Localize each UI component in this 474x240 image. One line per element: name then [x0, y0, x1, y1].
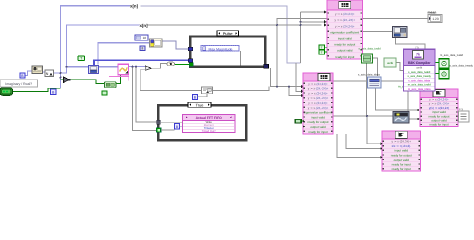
svg-text:eigenvalue coefficient: eigenvalue coefficient [304, 111, 333, 115]
svg-text:output valid: output valid [310, 125, 326, 129]
svg-text:x[n]: x[n] [140, 23, 149, 28]
svg-text:8: 8 [142, 47, 144, 51]
svg-text:s_axis_data_tvalid: s_axis_data_tvalid [359, 47, 382, 50]
svg-text:True: True [196, 102, 204, 107]
svg-text:ready for input: ready for input [392, 167, 411, 171]
svg-text:s_axis_data_tvalid: s_axis_data_tvalid [408, 71, 431, 74]
svg-text:y := x·(24,24)+: y := x·(24,24)+ [335, 24, 355, 28]
svg-text:T: T [80, 57, 82, 61]
svg-text:ready for output: ready for output [307, 120, 328, 124]
svg-text:output valid: output valid [394, 158, 410, 162]
svg-text:N: N [46, 72, 49, 76]
svg-text:y := x·(24,-24)+: y := x·(24,-24)+ [308, 87, 329, 91]
svg-text:R2K Compiler: R2K Compiler [408, 61, 431, 65]
svg-text:s_axis_data_tdata: s_axis_data_tdata [358, 74, 380, 77]
svg-text:ax4k: ax4k [416, 66, 423, 70]
svg-text:input valid: input valid [394, 149, 408, 153]
svg-text:1.23: 1.23 [432, 17, 438, 21]
svg-text:Max Magnitude: Max Magnitude [209, 47, 233, 51]
svg-text:1/x := +(-24,2)·: 1/x := +(-24,2)· [391, 144, 411, 148]
svg-text:y := x·(24,34)+: y := x·(24,34)+ [391, 140, 411, 144]
svg-text:output valid: output valid [337, 49, 353, 53]
svg-text:Imaginary / Real?: Imaginary / Real? [5, 82, 32, 86]
svg-text:s_axis_data_tready: s_axis_data_tready [408, 75, 432, 78]
svg-text:Actual FFT FIFO: Actual FFT FIFO [196, 116, 223, 120]
svg-text:7k: 7k [416, 52, 420, 56]
svg-text:m_axis_data_tdata: m_axis_data_tdata [408, 88, 431, 91]
svg-text:y := x·(24,24)+: y := x·(24,24)+ [308, 91, 328, 95]
svg-text:y := x·(24,-24)+: y := x·(24,-24)+ [308, 96, 329, 100]
svg-text:input valid: input valid [338, 37, 352, 41]
svg-text:x[n]: x[n] [130, 4, 139, 9]
svg-text:eigenvalue coefficient: eigenvalue coefficient [330, 30, 359, 34]
svg-text:ax4k: ax4k [387, 61, 394, 65]
svg-text:s_axis_data_tdata: s_axis_data_tdata [408, 79, 430, 82]
svg-text:y := x·(24,-24)+: y := x·(24,-24)+ [334, 18, 355, 22]
svg-text:ready for input: ready for input [335, 55, 354, 59]
svg-text:s_axis_data_tready: s_axis_data_tready [450, 64, 474, 67]
svg-text:T: T [321, 50, 323, 54]
svg-text:ready for input: ready for input [392, 162, 411, 166]
svg-text:ready for output: ready for output [391, 153, 412, 157]
svg-text:y := x·(24,24)+: y := x·(24,24)+ [308, 101, 328, 105]
svg-text:18: 18 [143, 36, 147, 40]
svg-text:m_axis_data_tvalid: m_axis_data_tvalid [408, 84, 432, 87]
svg-text:y := x·(24,-24)+: y := x·(24,-24)+ [308, 106, 329, 110]
svg-text:y := x·(24,24)+: y := x·(24,24)+ [308, 82, 328, 86]
svg-text:m_axis_data_tvalid: m_axis_data_tvalid [440, 54, 464, 57]
svg-text:Timed Out?: Timed Out? [202, 130, 216, 133]
svg-text:ready for input: ready for input [429, 123, 448, 127]
svg-text:ready for output: ready for output [334, 43, 355, 47]
svg-text:y := x·(24,24)+: y := x·(24,24)+ [335, 12, 355, 16]
svg-text:T: T [321, 46, 323, 50]
svg-text:input valid: input valid [311, 115, 325, 119]
svg-text:ready for input: ready for input [308, 130, 327, 134]
svg-text:Pulse: Pulse [223, 31, 233, 36]
